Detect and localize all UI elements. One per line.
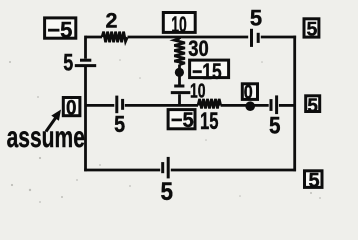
svg-text:5: 5	[114, 111, 125, 137]
svg-text:2: 2	[106, 9, 118, 33]
svg-text:assume: assume	[7, 121, 85, 154]
svg-text:10: 10	[190, 81, 206, 103]
svg-text:5: 5	[307, 96, 318, 117]
svg-text:0: 0	[244, 82, 253, 103]
svg-text:−5: −5	[47, 17, 72, 42]
svg-text:15: 15	[200, 108, 219, 135]
svg-text:5: 5	[306, 19, 317, 41]
svg-text:5: 5	[308, 170, 319, 192]
svg-text:30: 30	[188, 36, 209, 61]
svg-text:5: 5	[269, 112, 281, 139]
svg-text:5: 5	[250, 6, 262, 31]
svg-text:5: 5	[63, 49, 73, 76]
svg-text:10: 10	[171, 12, 187, 37]
svg-text:5: 5	[161, 178, 174, 206]
svg-text:0: 0	[66, 96, 77, 119]
svg-text:−5: −5	[171, 108, 194, 132]
